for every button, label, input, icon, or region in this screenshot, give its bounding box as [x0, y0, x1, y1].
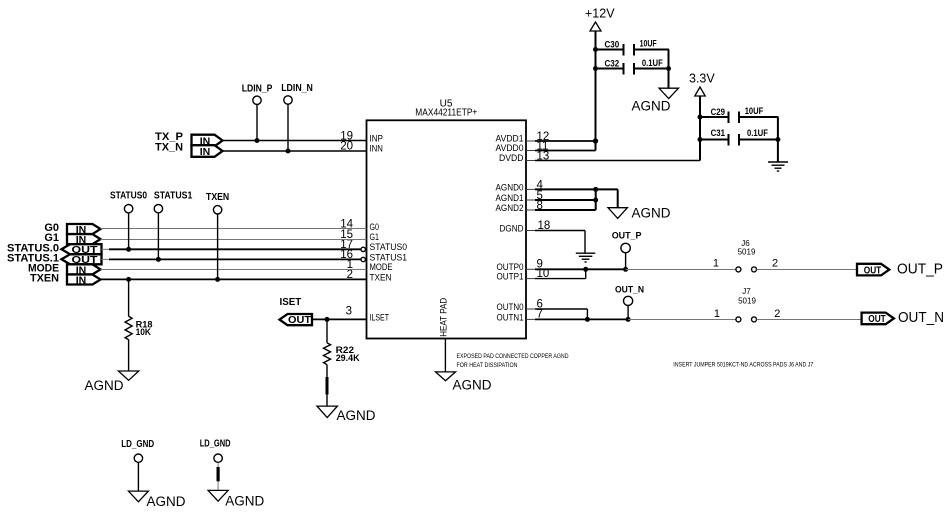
svg-text:TXEN: TXEN: [206, 192, 229, 203]
pin 5 AGND1: [496, 190, 543, 204]
capacitor C30: [596, 39, 670, 56]
svg-text:TXEN: TXEN: [30, 273, 59, 285]
node LDIN_P: [242, 83, 273, 143]
svg-text:AGND: AGND: [147, 494, 186, 509]
junction OUTP: [583, 267, 588, 272]
port STATUS.0 (OUT): [7, 242, 102, 256]
resistor R18 10K: [125, 279, 152, 371]
pin 3 ILSET: [346, 306, 390, 324]
pin 17 STATUS0 (inverting bubble): [340, 239, 407, 253]
svg-text:C32: C32: [605, 59, 620, 69]
node LDIN_N: [281, 83, 313, 154]
wire DVDD net: [526, 160, 700, 162]
svg-text:1: 1: [713, 258, 719, 270]
pin 4 AGND0: [496, 179, 544, 193]
svg-text:IN: IN: [200, 146, 211, 158]
note exposed pad: [457, 354, 570, 369]
port MODE (IN): [28, 262, 101, 276]
wire AVDD1 net: [526, 140, 596, 142]
jumper J6 5019: [713, 239, 778, 272]
svg-text:2: 2: [774, 308, 780, 320]
wire OUTN0 net: [526, 309, 587, 319]
node TXEN: [206, 192, 229, 282]
svg-text:C31: C31: [711, 128, 725, 138]
wire OUT_P to J6: [626, 269, 736, 271]
pin 9 OUTP0: [497, 259, 543, 274]
svg-text:OUT_N: OUT_N: [615, 285, 644, 296]
power 3.3V: [689, 71, 715, 96]
svg-text:OUT_N: OUT_N: [898, 309, 944, 326]
ground AGND (AGND0-2): [608, 205, 671, 220]
junction TXEN/R18: [126, 277, 131, 282]
wire STATUS.1 net: [102, 258, 362, 260]
capacitor C29: [700, 106, 778, 123]
pin 7 OUTN1: [497, 309, 543, 324]
wire TX_N net: [223, 150, 367, 152]
svg-text:+12V: +12V: [585, 7, 615, 21]
svg-text:HEAT PAD: HEAT PAD: [439, 298, 450, 337]
svg-text:AGND0: AGND0: [496, 182, 524, 193]
port TXEN (IN): [30, 273, 101, 287]
svg-text:OUT: OUT: [868, 313, 886, 325]
junction 3.3V/C29: [698, 115, 703, 120]
junction +12V/C32: [593, 66, 598, 71]
node LD_GND (right): [200, 439, 231, 491]
port G0 (IN): [44, 222, 100, 236]
svg-text:AGND: AGND: [453, 378, 492, 393]
svg-text:AGND: AGND: [225, 494, 264, 509]
junction C31 right: [775, 137, 780, 142]
svg-text:INP: INP: [370, 133, 383, 144]
resistor R22 29.4K: [324, 319, 361, 406]
svg-text:OUTP1: OUTP1: [497, 272, 524, 283]
wire AGND1 net: [526, 199, 596, 201]
capacitor C32: [596, 58, 670, 75]
svg-text:AGND2: AGND2: [496, 203, 524, 214]
svg-text:DGND: DGND: [500, 223, 524, 234]
heat pad pin: [439, 298, 450, 372]
wire OUTP1 net: [526, 269, 586, 278]
node STATUS1: [154, 191, 193, 262]
svg-text:J7: J7: [742, 287, 751, 296]
svg-text:EXPOSED PAD CONNECTED COPPER A: EXPOSED PAD CONNECTED COPPER AGND: [457, 354, 570, 360]
ground AGND (R22): [317, 406, 376, 423]
svg-text:3: 3: [346, 306, 352, 318]
port TX_N (IN): [155, 142, 223, 158]
svg-text:10K: 10K: [136, 327, 152, 337]
svg-text:STATUS1: STATUS1: [154, 191, 193, 202]
svg-text:TX_N: TX_N: [155, 142, 183, 154]
wire +12V rail: [595, 31, 597, 151]
svg-text:10UF: 10UF: [745, 106, 764, 116]
port STATUS.1 (OUT): [7, 253, 102, 267]
wire G0 net: [101, 228, 367, 230]
junction +12V/C30: [593, 47, 598, 52]
node OUT_N: [615, 285, 644, 322]
wire STATUS.0 net: [102, 248, 362, 250]
svg-text:LDIN_P: LDIN_P: [242, 83, 273, 94]
junction ISET/R22: [325, 317, 330, 322]
svg-text:AGND: AGND: [85, 378, 124, 393]
ground earth (DGND): [576, 253, 596, 262]
svg-text:OUT_P: OUT_P: [612, 231, 642, 242]
wire C29 right drop: [777, 117, 779, 162]
wire J7 to OUT_N port: [757, 319, 862, 321]
ground AGND (LD_GND right): [208, 490, 264, 508]
svg-text:ISET: ISET: [280, 297, 302, 308]
wire cap right drop: [668, 50, 670, 89]
wire TXEN net: [101, 278, 367, 280]
svg-text:LD_GND: LD_GND: [121, 439, 154, 450]
svg-text:1: 1: [714, 308, 720, 320]
port G1 (IN): [44, 232, 100, 246]
pin 14 G0: [340, 219, 379, 233]
pin 2 TXEN: [347, 269, 392, 283]
junction 3.3V/C31: [698, 137, 703, 142]
port OUT_N (OUT): [862, 309, 944, 326]
wire J6 to OUT_P port: [757, 269, 858, 271]
junction AGND0: [593, 187, 598, 192]
ground earth (C29/C31): [768, 162, 788, 171]
power +12V: [585, 7, 615, 32]
port TX_P (IN): [155, 131, 223, 147]
svg-text:FOR HEAT DISSIPATION: FOR HEAT DISSIPATION: [457, 363, 518, 369]
svg-text:STATUS0: STATUS0: [110, 191, 147, 202]
wire AVDD0 net: [526, 150, 596, 152]
svg-text:OUT: OUT: [864, 264, 882, 276]
svg-text:OUTN0: OUTN0: [497, 302, 524, 313]
wire MODE net: [101, 269, 367, 271]
jumper J7 5019: [714, 287, 780, 322]
svg-text:DVDD: DVDD: [499, 153, 524, 164]
svg-text:INN: INN: [370, 144, 384, 155]
svg-text:ILSET: ILSET: [370, 312, 390, 323]
pin 19 INP: [340, 130, 383, 144]
svg-text:MAX44211ETP+: MAX44211ETP+: [415, 107, 477, 118]
svg-text:TXEN: TXEN: [370, 272, 392, 283]
svg-text:AGND: AGND: [632, 205, 671, 220]
port OUT_P (OUT): [857, 260, 943, 277]
wire OUT_N to J7: [628, 319, 736, 321]
pin 1 MODE: [347, 259, 393, 273]
node LD_GND (left): [121, 439, 154, 491]
wire ISET net: [312, 318, 367, 320]
svg-text:OUTN1: OUTN1: [497, 312, 524, 323]
svg-text:C30: C30: [605, 39, 620, 49]
svg-text:C29: C29: [711, 107, 725, 117]
svg-text:0.1UF: 0.1UF: [747, 128, 768, 138]
svg-text:3.3V: 3.3V: [689, 71, 715, 85]
svg-text:LDIN_N: LDIN_N: [281, 83, 313, 94]
pin 8 AGND2: [496, 200, 543, 214]
svg-text:10UF: 10UF: [640, 39, 657, 49]
wire DGND net: [526, 231, 585, 254]
svg-text:0.1UF: 0.1UF: [642, 58, 663, 68]
ground AGND (caps C30/C32): [632, 88, 679, 113]
capacitor C31: [700, 128, 778, 146]
wire G1 net: [101, 239, 367, 241]
svg-text:AGND: AGND: [337, 408, 376, 423]
pin 18 DGND: [500, 220, 551, 234]
pin 13 DVDD: [499, 150, 549, 164]
ground AGND (heat pad): [436, 372, 492, 393]
pin 12 AVDD1: [496, 131, 550, 145]
junction AVDD1/+12V: [593, 138, 598, 143]
wire TX_P net: [223, 140, 367, 142]
svg-text:29.4K: 29.4K: [336, 353, 360, 363]
pin 15 G1: [340, 229, 379, 243]
junction C32 right: [666, 66, 671, 71]
wire AGND0 net: [526, 189, 618, 207]
junction AGND1: [593, 198, 598, 203]
wire AGND2 net: [526, 189, 596, 210]
pin 20 INN: [340, 141, 383, 155]
node OUT_P: [612, 231, 642, 272]
svg-text:2: 2: [772, 258, 778, 270]
ground AGND (R18): [85, 371, 139, 393]
pin 6 OUTN0: [497, 299, 543, 313]
junction OUTN: [585, 317, 590, 322]
svg-text:5019: 5019: [738, 247, 756, 256]
wire OUTN1 net: [526, 318, 628, 320]
IC U5 MAX44211ETP+: [367, 98, 527, 338]
svg-text:AGND: AGND: [632, 99, 671, 114]
pin 16 STATUS1 (inverting bubble): [340, 249, 407, 263]
wire OUTP0 net: [526, 268, 626, 270]
wire 3.3V rail: [699, 96, 701, 161]
svg-text:5019: 5019: [738, 297, 756, 306]
pin 10 OUTP1: [497, 268, 550, 282]
port ISET (OUT): [280, 297, 313, 326]
node STATUS0: [110, 191, 147, 252]
ground AGND (LD_GND left): [128, 491, 185, 509]
svg-text:IN: IN: [76, 274, 87, 286]
svg-text:OUT: OUT: [288, 314, 312, 326]
svg-text:INSERT JUMPER 5019KCT-ND ACROS: INSERT JUMPER 5019KCT-ND ACROSS PADS J6 …: [673, 362, 814, 368]
svg-text:OUT_P: OUT_P: [897, 260, 943, 277]
pin 11 AVDD0: [496, 140, 549, 154]
svg-text:LD_GND: LD_GND: [200, 439, 231, 450]
